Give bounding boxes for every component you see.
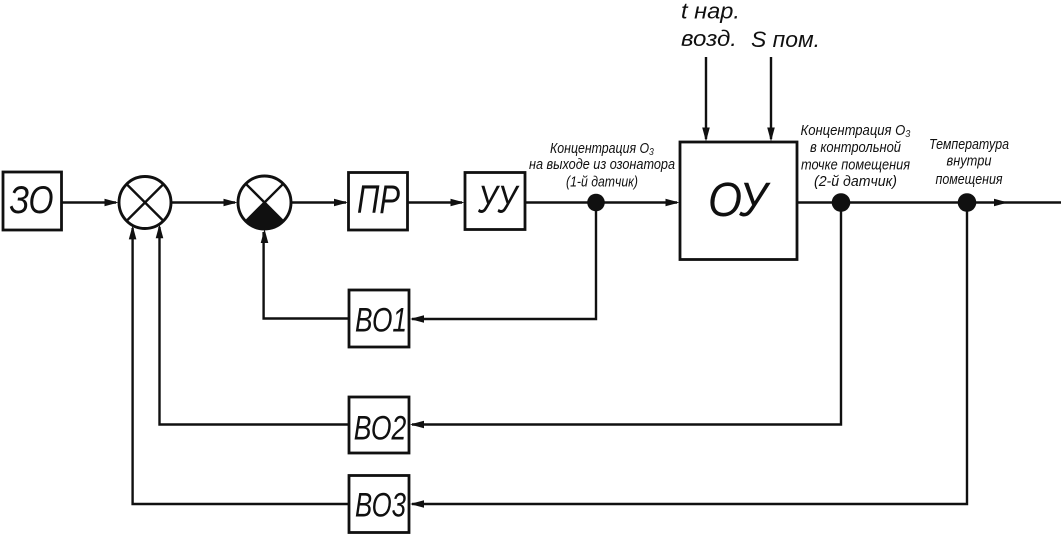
svg-text:ВО2: ВО2 (354, 410, 407, 448)
svg-text:Концентрация О₃: Концентрация О₃ (550, 140, 654, 157)
svg-text:ВО1: ВО1 (355, 302, 407, 340)
svg-text:помещения: помещения (936, 171, 1003, 188)
svg-text:в контрольной: в контрольной (810, 139, 902, 156)
svg-text:Концентрация О₃: Концентрация О₃ (801, 122, 911, 139)
svg-text:t нар.: t нар. (681, 0, 740, 24)
svg-text:S пом.: S пом. (751, 27, 820, 52)
svg-text:(2-й датчик): (2-й датчик) (814, 173, 897, 190)
svg-text:УУ: УУ (477, 179, 520, 222)
svg-text:возд.: возд. (681, 26, 737, 51)
svg-text:ЗО: ЗО (10, 179, 54, 222)
svg-text:ПР: ПР (357, 178, 400, 222)
svg-text:ОУ: ОУ (708, 174, 771, 227)
svg-text:точке помещения: точке помещения (801, 157, 910, 174)
svg-text:ВО3: ВО3 (355, 487, 406, 525)
svg-text:Температура: Температура (929, 136, 1009, 153)
svg-text:(1-й датчик): (1-й датчик) (566, 174, 638, 191)
svg-text:внутри: внутри (947, 153, 993, 170)
svg-text:на выходе из озонатора: на выходе из озонатора (529, 156, 675, 173)
